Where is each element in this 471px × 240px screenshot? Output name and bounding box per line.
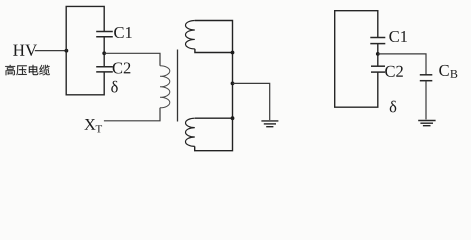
capacitor C1 (left) (96, 32, 113, 37)
label C2 (right) (385, 66, 403, 77)
label C1 (right) (389, 31, 407, 42)
inductor primary winding (160, 66, 170, 108)
node HV terminal label (13, 45, 37, 56)
capacitor C2 (left) (96, 67, 113, 72)
capacitor CB (420, 75, 433, 81)
capacitor C2 (right) (371, 66, 385, 72)
label C1 (left) (114, 27, 132, 38)
label 高压电缆 (high-voltage cable) (5, 65, 50, 76)
wire tap to primary winding (104, 53, 160, 66)
label delta (right) (390, 101, 397, 113)
inductor secondary winding bottom (185, 118, 194, 146)
wire secondary top loop (195, 21, 233, 151)
junction secondary center tap (231, 82, 235, 86)
wire tap to CB (378, 54, 426, 75)
inductor secondary winding top (186, 21, 195, 49)
junction C1-C2 tap node (102, 51, 106, 55)
transformer core (177, 50, 179, 122)
capacitor C1 (right) (370, 38, 385, 44)
junction secondary node a (231, 51, 235, 55)
wire secondary top bottom edge (195, 49, 233, 53)
label C2 (left) (113, 62, 131, 73)
wire primary bottom to XT (104, 108, 160, 121)
wire C1 bottom to C2 top (103, 37, 105, 67)
label CB (439, 65, 448, 76)
capacitor divider enclosure box (right) (335, 11, 378, 108)
junction HV node dot (65, 49, 69, 53)
label delta (left) (111, 81, 118, 93)
ground (middle) (261, 121, 278, 127)
junction tap node (right) (376, 52, 380, 56)
ground (right) (418, 121, 435, 126)
wire secondary bottom top edge (195, 117, 233, 119)
capacitor divider enclosure box (left) (66, 6, 104, 94)
wire CB to ground (425, 81, 427, 120)
wire center tap to ground (233, 83, 270, 120)
wire HV lead (35, 50, 66, 52)
junction secondary node b (231, 116, 235, 120)
node XT terminal label (84, 119, 95, 130)
wire C1 to C2 (right) (377, 44, 379, 66)
